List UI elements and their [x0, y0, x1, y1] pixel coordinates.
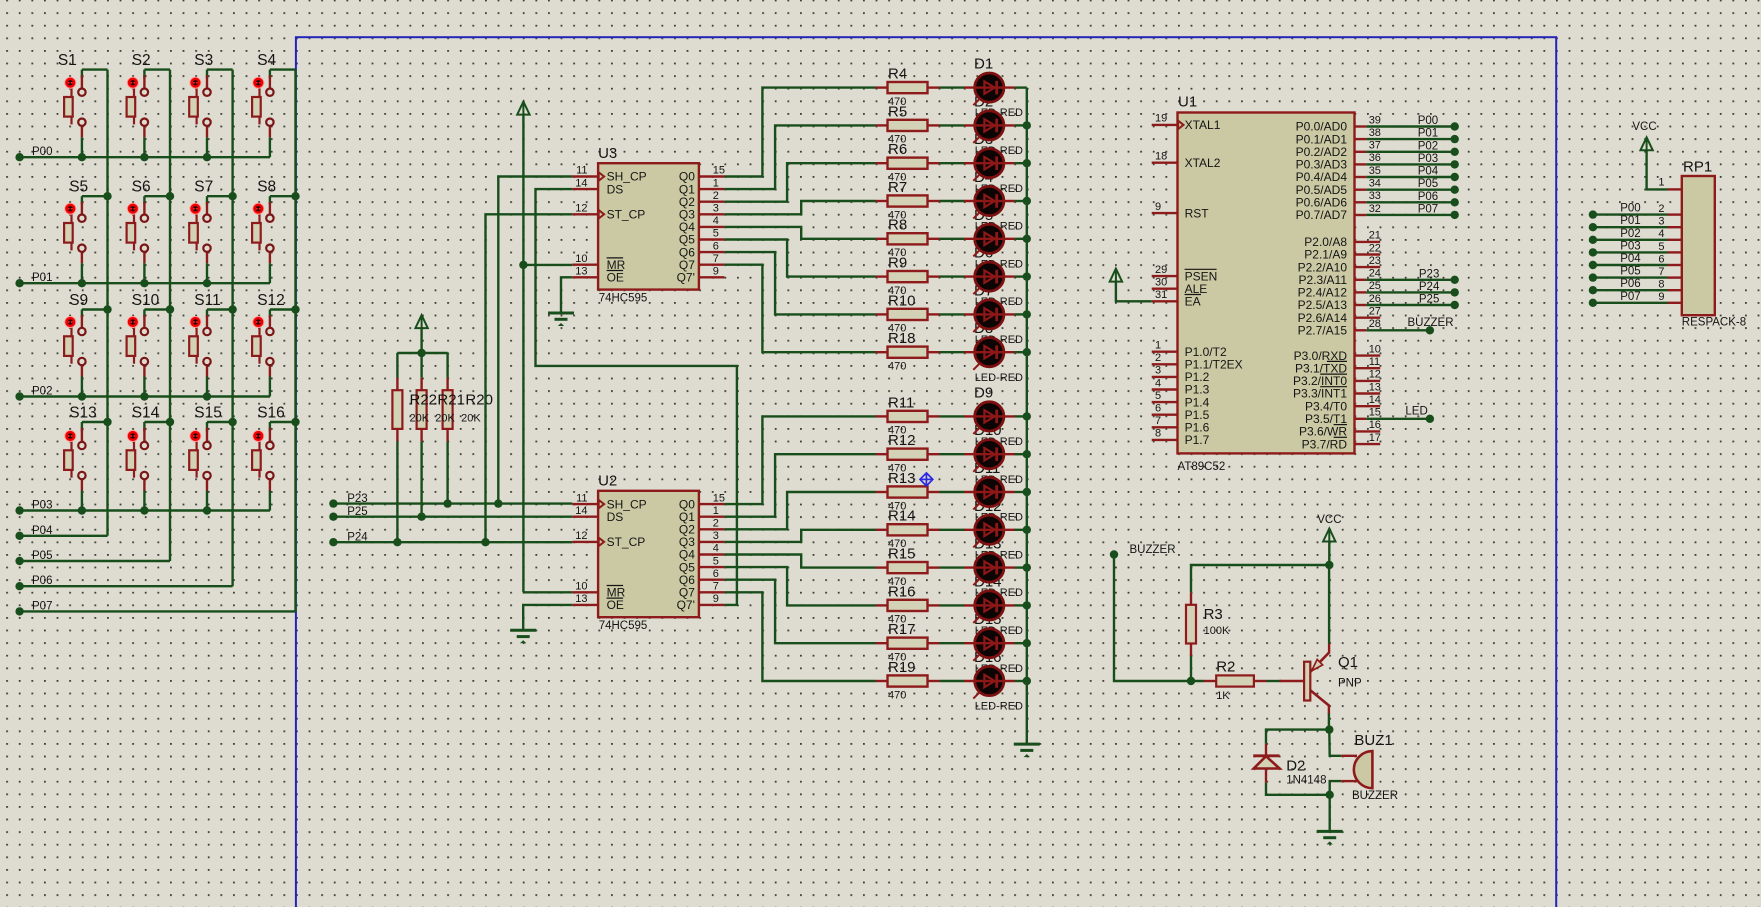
pin 15 Q0: [699, 503, 725, 505]
svg-text:ST_CP: ST_CP: [607, 208, 646, 222]
svg-text:9: 9: [1658, 291, 1664, 303]
pin 7 P1.6: [1152, 426, 1178, 428]
pin 4 Q4: [699, 553, 725, 555]
svg-text:D1: D1: [974, 56, 993, 73]
svg-text:3: 3: [1155, 365, 1161, 377]
pin 13 OE: [572, 604, 598, 606]
svg-text:39: 39: [1369, 114, 1381, 126]
svg-text:P04: P04: [1620, 253, 1641, 265]
wire U3 Q5 to resistor: [724, 240, 875, 277]
LED D13: [940, 553, 1027, 585]
wire R22 top: [396, 353, 398, 378]
svg-text:P24: P24: [1419, 281, 1440, 293]
svg-text:12: 12: [575, 203, 587, 215]
svg-text:P24: P24: [347, 531, 368, 543]
wire net LED (U1): [1366, 418, 1430, 420]
IC U1 AT89C52: [1152, 94, 1381, 473]
svg-text:P07: P07: [32, 600, 52, 612]
svg-text:2: 2: [713, 518, 719, 530]
svg-text:32: 32: [1369, 203, 1381, 215]
pin 5: [1668, 251, 1682, 253]
switch S3: [189, 52, 232, 161]
LED D8: [940, 338, 1027, 370]
svg-text:S2: S2: [132, 52, 151, 69]
svg-text:13: 13: [575, 266, 587, 278]
svg-text:5: 5: [1658, 241, 1664, 253]
wire U2 Q2 to resistor: [724, 492, 875, 529]
wire U3 ST_CP to P24: [486, 214, 573, 542]
wire U2 MR: [523, 591, 572, 593]
svg-text:VCC: VCC: [1632, 121, 1656, 133]
pin 5 Q5: [699, 238, 725, 240]
pin 39 P0.0/AD0: [1355, 125, 1367, 127]
svg-text:3: 3: [1658, 216, 1664, 228]
svg-text:35: 35: [1369, 165, 1381, 177]
wire net P24: [333, 541, 572, 543]
svg-text:11: 11: [576, 492, 587, 504]
svg-text:74HC595: 74HC595: [599, 620, 648, 632]
svg-text:EA: EA: [1185, 295, 1201, 309]
pin 7 Q7: [699, 591, 725, 593]
svg-text:P03: P03: [32, 500, 52, 512]
wire U2 Q4 to resistor: [724, 555, 875, 568]
svg-text:P23: P23: [1419, 268, 1439, 280]
svg-text:R11: R11: [888, 394, 914, 411]
svg-text:OE: OE: [607, 598, 624, 612]
svg-text:3: 3: [713, 203, 719, 215]
svg-text:30: 30: [1155, 277, 1167, 289]
label LED D16: [974, 649, 1023, 713]
pin 4 Q4: [699, 226, 725, 228]
svg-text:4: 4: [713, 215, 719, 227]
svg-text:R5: R5: [888, 103, 907, 120]
switch S15: [189, 404, 232, 514]
LED D7: [940, 300, 1027, 332]
pin 1 Q1: [699, 516, 725, 518]
svg-text:R20: R20: [465, 392, 493, 409]
switch S16: [252, 404, 295, 510]
wire net P23: [333, 502, 572, 504]
svg-text:2: 2: [1155, 352, 1161, 364]
wire LED cathode bus: [1026, 88, 1028, 745]
node P00 terminal: [15, 153, 23, 161]
pin 12 ST_CP: [572, 541, 598, 543]
wire R3 bottom: [1190, 655, 1192, 681]
svg-text:23: 23: [1369, 255, 1381, 267]
svg-text:R8: R8: [888, 217, 907, 234]
pin 12 P3.2/INT0: [1355, 380, 1381, 382]
pin 3 Q3: [699, 213, 725, 215]
svg-text:P02: P02: [32, 386, 52, 398]
resistor pack RP1 RESPACK-8: [1589, 121, 1746, 328]
pin 12 ST_CP: [572, 213, 598, 215]
pin 2: [1668, 213, 1682, 215]
wire net P03 (U1): [1366, 163, 1455, 165]
svg-text:38: 38: [1369, 127, 1381, 139]
svg-text:11: 11: [1369, 356, 1380, 368]
wire net P25: [333, 516, 572, 518]
buzzer BUZ1: [1341, 751, 1372, 788]
svg-text:17: 17: [1369, 432, 1381, 444]
pin 36 P0.3/AD3: [1355, 163, 1367, 165]
svg-text:BUZZER: BUZZER: [1352, 790, 1398, 802]
switch S10: [127, 292, 170, 401]
pin 23 P2.2/A10: [1355, 266, 1381, 268]
node P23 terminal: [329, 499, 337, 507]
wire net P03 (RP1): [1593, 251, 1668, 253]
resistor R13: [876, 470, 940, 512]
pin 30 ALE: [1152, 288, 1178, 290]
svg-text:2: 2: [1658, 203, 1664, 215]
svg-text:7: 7: [1155, 415, 1161, 427]
LED D10: [940, 440, 1027, 472]
wire U2 Q1 to resistor: [724, 454, 875, 517]
svg-text:R19: R19: [888, 659, 916, 676]
svg-text:S14: S14: [132, 404, 160, 421]
svg-text:AT89C52: AT89C52: [1178, 461, 1226, 473]
svg-text:11: 11: [576, 165, 587, 177]
svg-text:R14: R14: [888, 508, 916, 525]
LED D9: [940, 402, 1027, 434]
svg-text:5: 5: [713, 228, 719, 240]
wire collector down: [1328, 713, 1330, 730]
svg-text:S4: S4: [257, 52, 276, 69]
node P05 terminal: [15, 557, 23, 565]
svg-text:P05: P05: [32, 550, 52, 562]
node P04 terminal: [15, 532, 23, 540]
pin 10 MR: [572, 591, 598, 593]
pin 15 P3.5/T1: [1355, 418, 1367, 420]
svg-text:6: 6: [1155, 403, 1161, 415]
svg-text:P02: P02: [1620, 228, 1640, 240]
wire net P06 (RP1): [1593, 289, 1668, 291]
svg-text:Q1: Q1: [1338, 654, 1358, 671]
pin 10 MR: [572, 264, 598, 266]
pin 16 P3.6/WR: [1355, 430, 1381, 432]
pin 3: [1668, 226, 1682, 228]
svg-text:4: 4: [1658, 228, 1664, 240]
label LED D12: [974, 498, 1023, 562]
svg-text:6: 6: [713, 240, 719, 252]
switch S7: [189, 179, 232, 288]
svg-text:R15: R15: [888, 546, 916, 563]
svg-text:9: 9: [713, 593, 719, 605]
svg-text:R2: R2: [1216, 658, 1235, 675]
wire U3 Q3 to resistor: [724, 201, 875, 214]
svg-text:U1: U1: [1178, 94, 1197, 111]
wire emitter from VCC: [1328, 565, 1330, 644]
wire U3 Q7 to resistor: [724, 265, 875, 353]
node P25 terminal: [329, 513, 337, 521]
LED D4: [940, 186, 1027, 218]
svg-text:RP1: RP1: [1683, 159, 1712, 176]
pin 15 Q0: [699, 175, 725, 177]
power VCC arrow (pullups): [420, 328, 422, 353]
wire U3 Q0 to resistor: [724, 88, 875, 177]
wire net P02 (U1): [1366, 151, 1455, 153]
svg-text:R13: R13: [888, 470, 916, 487]
svg-text:P3.7/RD: P3.7/RD: [1302, 437, 1348, 451]
svg-text:20K: 20K: [435, 413, 455, 425]
wire R20 top: [446, 353, 448, 378]
switch S6: [127, 179, 170, 288]
svg-text:BUZ1: BUZ1: [1354, 732, 1392, 749]
svg-text:19: 19: [1155, 113, 1167, 125]
svg-text:25: 25: [1369, 280, 1381, 292]
svg-text:22: 22: [1369, 242, 1381, 254]
svg-text:LED-RED: LED-RED: [975, 372, 1023, 384]
wire D2 bottom: [1266, 783, 1330, 795]
svg-text:S3: S3: [194, 52, 213, 69]
wire net P04 (RP1): [1593, 264, 1668, 266]
power arrow and MR rail: [522, 114, 524, 592]
svg-text:BUZZER: BUZZER: [1130, 544, 1176, 556]
svg-text:S10: S10: [132, 292, 160, 309]
wire U2 Q7' to U3 DS (cascade): [536, 189, 737, 605]
svg-text:R12: R12: [888, 432, 916, 449]
svg-text:14: 14: [1369, 394, 1381, 406]
node MR junction: [519, 261, 527, 269]
IC U3 74HC595: [572, 145, 725, 305]
resistor R12: [876, 432, 940, 474]
ground (U3 OE): [548, 312, 574, 315]
pin 22 P2.1/A9: [1355, 253, 1381, 255]
svg-text:R21: R21: [437, 392, 465, 409]
resistor R3: [1186, 592, 1196, 656]
resistor R14: [876, 508, 940, 550]
svg-text:R7: R7: [888, 179, 907, 196]
svg-text:P07: P07: [1418, 204, 1438, 216]
pin 6 Q6: [699, 251, 725, 253]
node BUZZER terminal: [1110, 550, 1118, 558]
wire row P02: [20, 395, 270, 397]
svg-text:9: 9: [1155, 201, 1161, 213]
resistor R5: [876, 103, 940, 145]
wire keypad column 4: [294, 70, 296, 612]
resistor R9: [876, 255, 940, 297]
resistor R18: [876, 330, 940, 372]
pin 26 P2.5/A13: [1355, 304, 1367, 306]
wire net P23 (U1): [1366, 279, 1455, 281]
label LED D3: [974, 131, 1023, 195]
LED D2: [940, 111, 1027, 143]
svg-text:4: 4: [713, 543, 719, 555]
power arrow (EA): [1116, 281, 1152, 301]
svg-text:8: 8: [1155, 428, 1161, 440]
svg-text:P06: P06: [1418, 191, 1438, 203]
pin 3 Q3: [699, 541, 725, 543]
pin 6 Q6: [699, 579, 725, 581]
pin 9 RST: [1152, 212, 1178, 214]
wire net P05 (U1): [1366, 188, 1455, 190]
label LED D7: [974, 282, 1023, 346]
svg-text:7: 7: [713, 581, 719, 593]
svg-text:R10: R10: [888, 292, 916, 309]
svg-text:74HC595: 74HC595: [599, 292, 648, 304]
resistor R4: [876, 66, 940, 108]
switch S9: [64, 292, 107, 401]
resistor R6: [876, 141, 940, 183]
svg-text:R4: R4: [888, 66, 907, 83]
pin 1 P1.0/T2: [1152, 351, 1178, 353]
wire R21 bottom to P25: [420, 441, 422, 516]
pin 7 Q7: [699, 264, 725, 266]
LED D14: [940, 591, 1027, 623]
wire keypad column 1: [106, 70, 108, 536]
pin 2 P1.1/T2EX: [1152, 363, 1178, 365]
svg-text:P02: P02: [1418, 140, 1438, 152]
svg-text:21: 21: [1369, 230, 1381, 242]
pin 2 Q2: [699, 200, 725, 202]
svg-text:1: 1: [713, 505, 719, 517]
pin 34 P0.5/AD5: [1355, 188, 1367, 190]
pin 38 P0.1/AD1: [1355, 138, 1367, 140]
label LED D6: [974, 245, 1023, 309]
svg-text:R18: R18: [888, 330, 916, 347]
wire U3 OE to ground: [561, 277, 572, 313]
wire BUZZER to R2: [1114, 555, 1204, 682]
resistor R21: [417, 378, 427, 442]
wire U2 OE to ground: [523, 605, 572, 630]
svg-text:6: 6: [713, 568, 719, 580]
svg-text:S11: S11: [194, 292, 220, 309]
svg-text:BUZZER: BUZZER: [1408, 317, 1454, 329]
pin 3 P1.2: [1152, 376, 1178, 378]
svg-text:P01: P01: [1620, 215, 1640, 227]
svg-text:R6: R6: [888, 141, 907, 158]
svg-text:P04: P04: [32, 525, 53, 537]
svg-text:10: 10: [1369, 343, 1381, 355]
svg-text:S16: S16: [257, 404, 285, 421]
node P02 terminal: [15, 392, 23, 400]
wire U2 Q0 to resistor: [724, 416, 875, 504]
resistor R10: [876, 292, 940, 334]
svg-text:P07: P07: [1620, 291, 1640, 303]
svg-text:P25: P25: [1419, 294, 1439, 306]
svg-text:LED: LED: [1405, 406, 1427, 418]
svg-text:S5: S5: [69, 179, 88, 196]
wire R21 top: [420, 353, 422, 378]
svg-text:OE: OE: [607, 271, 624, 285]
pin 28 P2.7/A15: [1355, 329, 1367, 331]
svg-text:8: 8: [1658, 279, 1664, 291]
svg-text:R17: R17: [888, 621, 916, 638]
svg-text:29: 29: [1155, 264, 1167, 276]
LED D11: [940, 477, 1027, 509]
svg-text:S15: S15: [194, 404, 222, 421]
svg-text:15: 15: [713, 165, 725, 177]
wire net P06 (U1): [1366, 201, 1455, 203]
svg-text:P00: P00: [32, 146, 52, 158]
LED D16: [940, 666, 1027, 698]
svg-text:P03: P03: [1418, 153, 1438, 165]
switch S11: [189, 292, 232, 401]
pin 14 P3.4/T0: [1355, 405, 1381, 407]
svg-text:P04: P04: [1418, 166, 1439, 178]
wire net P01 (U1): [1366, 138, 1455, 140]
wire U2 Q3 to resistor: [724, 530, 875, 542]
pin 5 P1.4: [1152, 401, 1178, 403]
svg-text:P06: P06: [32, 575, 52, 587]
wire net P07 (U1): [1366, 214, 1455, 216]
node VCC junction: [1325, 561, 1333, 569]
svg-text:P05: P05: [1620, 266, 1640, 278]
label LED D4: [974, 169, 1023, 233]
svg-text:100K: 100K: [1204, 625, 1230, 637]
svg-text:33: 33: [1369, 190, 1381, 202]
wire to buzzer top pin: [1329, 730, 1341, 756]
switch S5: [64, 179, 107, 288]
svg-text:P2.7/A15: P2.7/A15: [1298, 324, 1348, 338]
label LED D9: [974, 384, 1023, 448]
svg-text:R9: R9: [888, 255, 907, 272]
LED D12: [940, 515, 1027, 547]
svg-text:1: 1: [713, 177, 719, 189]
label LED D14: [974, 573, 1023, 637]
wire net P00 (RP1): [1593, 213, 1668, 215]
wire row P06: [20, 585, 233, 587]
resistor R2: [1204, 675, 1267, 686]
pin 5 Q5: [699, 566, 725, 568]
switch S1: [58, 52, 108, 161]
switch S12: [252, 292, 295, 397]
svg-text:10: 10: [575, 581, 587, 593]
svg-text:S6: S6: [132, 179, 151, 196]
svg-text:P00: P00: [1418, 115, 1438, 127]
svg-text:R16: R16: [888, 583, 916, 600]
svg-text:P06: P06: [1620, 278, 1640, 290]
svg-text:34: 34: [1369, 178, 1381, 190]
svg-text:470: 470: [888, 689, 906, 701]
wire collector to D2 top: [1266, 730, 1329, 744]
svg-text:18: 18: [1155, 151, 1167, 163]
pin 6 P1.5: [1152, 414, 1178, 416]
svg-text:XTAL1: XTAL1: [1185, 118, 1221, 132]
pin 17 P3.7/RD: [1355, 443, 1381, 445]
svg-text:D2: D2: [1286, 757, 1305, 774]
resistor R7: [876, 179, 940, 221]
svg-text:1: 1: [1658, 176, 1664, 188]
wire U2 Q6 to resistor: [724, 580, 875, 644]
pin 1 Q1: [699, 188, 725, 190]
sheet border: [296, 37, 1556, 907]
LED D6: [940, 262, 1027, 294]
pin 9 Q7': [699, 604, 725, 606]
svg-text:S1: S1: [58, 52, 77, 69]
svg-text:LED-RED: LED-RED: [975, 701, 1023, 713]
label LED D8: [974, 320, 1023, 384]
wire net P24 (U1): [1366, 291, 1455, 293]
svg-text:P0.7/AD7: P0.7/AD7: [1296, 208, 1348, 222]
svg-text:P01: P01: [32, 272, 52, 284]
svg-text:XTAL2: XTAL2: [1185, 156, 1221, 170]
svg-text:P01: P01: [1418, 128, 1438, 140]
svg-text:26: 26: [1369, 293, 1381, 305]
svg-text:37: 37: [1369, 140, 1381, 152]
pin 32 P0.7/AD7: [1355, 214, 1367, 216]
svg-text:U3: U3: [598, 145, 617, 162]
switch S13: [64, 404, 107, 514]
wire U2 Q7 to resistor: [724, 592, 875, 681]
pin 4: [1668, 239, 1682, 241]
svg-text:P25: P25: [347, 506, 367, 518]
svg-text:5: 5: [1155, 390, 1161, 402]
pin 6: [1668, 264, 1682, 266]
resistor R11: [876, 394, 940, 436]
wire row P03: [20, 509, 270, 511]
svg-text:15: 15: [1369, 407, 1381, 419]
svg-text:S8: S8: [257, 179, 276, 196]
